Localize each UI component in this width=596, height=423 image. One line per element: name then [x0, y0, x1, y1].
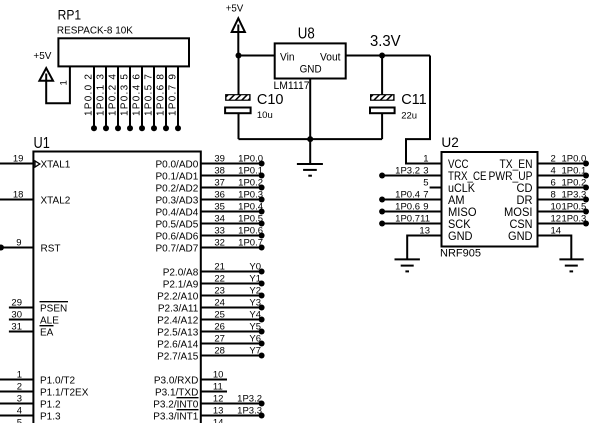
- svg-text:+5V: +5V: [33, 50, 51, 62]
- svg-text:1P0.3 5: 1P0.3 5: [119, 74, 130, 116]
- svg-text:1P0.4: 1P0.4: [238, 201, 263, 212]
- svg-text:1P0.6: 1P0.6: [238, 225, 263, 236]
- junction node GND rail: [307, 136, 313, 142]
- svg-text:P2.5/A13: P2.5/A13: [157, 327, 199, 338]
- U1 pin 12 P3.2/INT0 net 1P3.2: [153, 393, 264, 410]
- svg-text:30: 30: [11, 310, 22, 321]
- RP1 pin 3 net 1P0.1: [95, 66, 109, 131]
- svg-text:1P0.0: 1P0.0: [562, 153, 587, 164]
- svg-text:P2.4/A12: P2.4/A12: [157, 315, 199, 326]
- U1 pin 37 P0.2/AD2 net 1P0.2: [155, 177, 264, 194]
- svg-text:1P0.3: 1P0.3: [238, 189, 263, 200]
- U1 pin 33 P0.6/AD6 net 1P0.6: [155, 225, 264, 242]
- ground (U2 pin 14): [559, 259, 583, 271]
- svg-text:P0.1/AD1: P0.1/AD1: [155, 171, 198, 182]
- svg-text:4: 4: [17, 406, 22, 417]
- IC U2 NRF905: [440, 135, 538, 259]
- svg-text:14: 14: [213, 417, 224, 423]
- svg-text:P2.2/A10: P2.2/A10: [157, 291, 199, 302]
- svg-text:RST: RST: [41, 243, 61, 254]
- svg-text:1P0.0 2: 1P0.0 2: [83, 74, 94, 116]
- U2 pin names left column: [448, 159, 487, 243]
- svg-text:P0.0/AD0: P0.0/AD0: [155, 159, 198, 170]
- U1 pin 2 P1.1/T2EX: [0, 382, 89, 399]
- U2 pin 7 AM net 1P0.4: [379, 189, 441, 202]
- svg-text:23: 23: [214, 285, 225, 296]
- svg-text:Y2: Y2: [249, 285, 261, 296]
- capacitor C10 10u: [222, 56, 284, 140]
- svg-text:P2.6/A14: P2.6/A14: [157, 339, 199, 350]
- svg-text:6: 6: [551, 177, 556, 188]
- svg-text:1P0.7 9: 1P0.7 9: [167, 74, 178, 116]
- U2 pin 14 GND wire: [538, 225, 572, 259]
- svg-text:P3.1/TXD: P3.1/TXD: [155, 387, 198, 398]
- svg-text:28: 28: [214, 345, 225, 356]
- wire 3.3V to U2 VCC: [406, 56, 442, 164]
- svg-text:U8: U8: [298, 26, 315, 43]
- U1 pin 25 P2.4/A12 net Y4: [157, 309, 264, 326]
- U1 pin 1 P1.0/T2: [0, 370, 75, 387]
- svg-text:1P0.1: 1P0.1: [238, 165, 263, 176]
- svg-text:25: 25: [214, 309, 225, 320]
- svg-text:RP1: RP1: [58, 8, 82, 23]
- svg-text:1P0.2 4: 1P0.2 4: [107, 74, 118, 116]
- U1 pin 11 P3.1/TXD: [155, 381, 227, 398]
- svg-text:P3.0/RXD: P3.0/RXD: [154, 375, 198, 386]
- svg-text:+5V: +5V: [226, 2, 244, 14]
- svg-text:1P0.7: 1P0.7: [395, 213, 420, 224]
- svg-text:1P0.5: 1P0.5: [562, 201, 587, 212]
- svg-text:1P3.2: 1P3.2: [237, 393, 262, 404]
- svg-text:1P3.3: 1P3.3: [237, 405, 262, 416]
- RP1 pin 2 net 1P0.0: [83, 66, 97, 131]
- svg-text:1P0.5 7: 1P0.5 7: [143, 74, 154, 116]
- svg-text:DR: DR: [517, 195, 533, 207]
- svg-text:Y7: Y7: [249, 345, 261, 356]
- svg-text:P2.7/A15: P2.7/A15: [157, 351, 199, 362]
- svg-text:7: 7: [423, 189, 428, 200]
- U1 pin 39 P0.0/AD0 net 1P0.0: [155, 153, 264, 170]
- svg-text:P1.2: P1.2: [40, 399, 61, 410]
- U2 pin 11 SCK net 1P0.7: [379, 213, 441, 226]
- U1 pin 10 P3.0/RXD: [154, 369, 227, 386]
- U1 pin 38 P0.1/AD1 net 1P0.1: [155, 165, 264, 182]
- svg-text:MOSI: MOSI: [504, 207, 533, 219]
- U2 pin 4 PWR_UP net 1P0.1: [538, 165, 590, 178]
- svg-text:P2.3/A11: P2.3/A11: [158, 303, 199, 314]
- U1 pin 34 P0.5/AD5 net 1P0.5: [155, 213, 264, 230]
- svg-text:Y6: Y6: [249, 333, 261, 344]
- svg-text:33: 33: [214, 225, 225, 236]
- svg-text:SCK: SCK: [448, 219, 471, 231]
- svg-text:P2.0/A8: P2.0/A8: [163, 267, 199, 278]
- svg-text:P2.1/A9: P2.1/A9: [163, 279, 199, 290]
- svg-text:1P0.0: 1P0.0: [238, 153, 263, 164]
- svg-text:C10: C10: [257, 92, 284, 108]
- RP1 pin 5 net 1P0.3: [119, 66, 133, 131]
- svg-text:1: 1: [59, 80, 70, 85]
- U1 pin 19 XTAL1: [0, 154, 71, 171]
- svg-text:P1.3: P1.3: [40, 411, 61, 422]
- svg-text:8: 8: [551, 189, 556, 200]
- svg-text:18: 18: [13, 190, 24, 201]
- svg-text:9: 9: [16, 238, 21, 249]
- U1 pin 27 P2.6/A14 net Y6: [157, 333, 264, 350]
- svg-text:P0.5/AD5: P0.5/AD5: [155, 219, 198, 230]
- U2 pin 10 MOSI net 1P0.5: [538, 201, 590, 214]
- svg-text:P0.4/AD4: P0.4/AD4: [155, 207, 198, 218]
- svg-text:EA: EA: [40, 327, 54, 338]
- RP1 pin 8 net 1P0.6: [155, 66, 169, 131]
- svg-text:Vin: Vin: [280, 51, 295, 63]
- svg-text:35: 35: [214, 201, 225, 212]
- U1 pin 35 P0.4/AD4 net 1P0.4: [155, 201, 264, 218]
- svg-text:P0.2/AD2: P0.2/AD2: [155, 183, 198, 194]
- U2 pin 13 GND wire: [407, 225, 441, 259]
- svg-text:PSEN: PSEN: [40, 303, 67, 314]
- svg-text:Y3: Y3: [249, 297, 261, 308]
- svg-text:RESPACK-8 10K: RESPACK-8 10K: [57, 26, 133, 37]
- svg-text:1P3.3: 1P3.3: [562, 189, 587, 200]
- regulator U8 LM1117: [274, 26, 346, 93]
- svg-text:Vout: Vout: [320, 51, 341, 63]
- svg-text:3.3V: 3.3V: [370, 33, 401, 50]
- wire RP1 pin 1 to +5V: [46, 66, 70, 103]
- wire U8 Vout to 3.3V corner: [346, 55, 430, 57]
- ground (U2 pin 13): [395, 259, 420, 271]
- svg-text:11: 11: [420, 213, 430, 224]
- svg-text:10: 10: [551, 201, 562, 212]
- U2 pin names right column: [489, 159, 533, 243]
- svg-text:P3.2/INT0: P3.2/INT0: [153, 399, 198, 410]
- svg-text:14: 14: [551, 225, 562, 236]
- svg-text:NRF905: NRF905: [440, 248, 481, 260]
- svg-text:U2: U2: [441, 135, 458, 150]
- svg-text:P1.0/T2: P1.0/T2: [40, 375, 75, 386]
- svg-text:36: 36: [214, 189, 225, 200]
- svg-text:12: 12: [213, 393, 224, 404]
- svg-text:1P0.4: 1P0.4: [395, 189, 420, 200]
- svg-text:38: 38: [214, 165, 225, 176]
- svg-text:1P0.1: 1P0.1: [562, 165, 587, 176]
- svg-text:XTAL2: XTAL2: [41, 195, 71, 206]
- svg-text:CSN: CSN: [510, 219, 533, 231]
- svg-text:11: 11: [213, 381, 223, 392]
- svg-text:22: 22: [214, 273, 225, 284]
- svg-text:TRX_CE: TRX_CE: [448, 171, 487, 183]
- capacitor C11 22u: [367, 56, 427, 140]
- svg-text:5: 5: [17, 418, 22, 423]
- power +5V (RP1): [33, 50, 53, 82]
- svg-text:12: 12: [551, 213, 562, 224]
- RP1 pin 7 net 1P0.5: [143, 66, 157, 131]
- RP1 pin 6 net 1P0.4: [131, 66, 145, 131]
- U1 pin 22 P2.1/A9 net Y1: [163, 273, 265, 290]
- U1 pin 18 XTAL2: [0, 190, 71, 207]
- node 3.3V: [370, 33, 401, 59]
- U1 pin 29 PSEN: [9, 298, 68, 315]
- svg-text:3: 3: [423, 165, 428, 176]
- IC U1 (8051 MCU): [33, 135, 200, 423]
- svg-text:2: 2: [17, 382, 22, 393]
- svg-text:LM1117: LM1117: [274, 80, 310, 92]
- RP1 pin 9 net 1P0.7: [167, 66, 181, 131]
- svg-text:1: 1: [423, 153, 428, 164]
- U2 pin 9 MISO net 1P0.6: [379, 201, 441, 214]
- U1 pin 9 RST: [0, 238, 61, 255]
- svg-text:MISO: MISO: [448, 207, 477, 219]
- resistor pack RP1: [57, 8, 189, 67]
- RP1 pin 4 net 1P0.2: [107, 66, 121, 131]
- svg-text:34: 34: [214, 213, 225, 224]
- svg-text:26: 26: [214, 321, 225, 332]
- svg-text:29: 29: [11, 298, 22, 309]
- svg-text:19: 19: [13, 154, 24, 165]
- wire +5V to U8 Vin: [239, 55, 275, 57]
- svg-text:1P0.7: 1P0.7: [238, 237, 263, 248]
- svg-text:13: 13: [419, 225, 430, 236]
- U1 pin 4 P1.3: [0, 406, 61, 423]
- svg-text:AM: AM: [448, 195, 465, 207]
- U2 pin 5 uCLK stub: [423, 177, 441, 188]
- svg-text:1P3.2: 1P3.2: [395, 165, 420, 176]
- svg-text:Y5: Y5: [249, 321, 261, 332]
- svg-text:1P0.5: 1P0.5: [238, 213, 263, 224]
- svg-text:4: 4: [551, 165, 556, 176]
- svg-text:U1: U1: [34, 135, 50, 152]
- svg-text:C11: C11: [401, 92, 427, 108]
- svg-text:Y4: Y4: [249, 309, 261, 320]
- U1 pin 21 P2.0/A8 net Y0: [163, 261, 265, 278]
- svg-text:VCC: VCC: [448, 159, 469, 171]
- svg-text:22u: 22u: [401, 111, 417, 122]
- U1 pin 13 P3.3/INT1 net 1P3.3: [153, 405, 264, 422]
- svg-text:2: 2: [551, 153, 556, 164]
- svg-text:21: 21: [214, 261, 225, 272]
- svg-text:Y1: Y1: [249, 273, 261, 284]
- svg-text:39: 39: [214, 153, 225, 164]
- svg-text:uCLK: uCLK: [448, 183, 475, 195]
- svg-text:GND: GND: [508, 231, 533, 243]
- svg-text:1P0.3: 1P0.3: [562, 213, 587, 224]
- svg-text:24: 24: [214, 297, 225, 308]
- power +5V (regulator input): [226, 2, 245, 55]
- svg-text:10: 10: [213, 369, 224, 380]
- svg-text:P0.7/AD7: P0.7/AD7: [155, 243, 198, 254]
- wire U8 GND down: [309, 79, 311, 165]
- svg-text:GND: GND: [448, 231, 473, 243]
- ground rail under regulator: [239, 138, 383, 140]
- U1 pin 24 P2.3/A11 net Y3: [158, 297, 265, 314]
- U1 pin 26 P2.5/A13 net Y5: [157, 321, 264, 338]
- U1 pin 23 P2.2/A10 net Y2: [157, 285, 264, 302]
- svg-text:Y0: Y0: [249, 261, 261, 272]
- svg-text:P0.6/AD6: P0.6/AD6: [155, 231, 198, 242]
- svg-text:P3.3/INT1: P3.3/INT1: [153, 411, 198, 422]
- svg-text:9: 9: [423, 201, 428, 212]
- svg-text:1P0.6 8: 1P0.6 8: [155, 74, 166, 116]
- svg-text:1P0.2: 1P0.2: [238, 177, 263, 188]
- svg-text:37: 37: [214, 177, 225, 188]
- svg-text:31: 31: [11, 322, 22, 333]
- svg-text:CD: CD: [517, 183, 533, 195]
- U2 pin 6 CD net 1P0.2: [538, 177, 590, 190]
- U2 pin 3 TRX_CE net 1P3.2: [379, 165, 441, 178]
- svg-text:1P0.6: 1P0.6: [395, 201, 420, 212]
- svg-text:XTAL1: XTAL1: [41, 159, 71, 170]
- svg-text:5: 5: [423, 177, 428, 188]
- svg-text:TX_EN: TX_EN: [500, 159, 533, 171]
- U1 pin 36 P0.3/AD3 net 1P0.3: [155, 189, 264, 206]
- svg-text:1P0.2: 1P0.2: [562, 177, 587, 188]
- svg-text:13: 13: [213, 405, 224, 416]
- svg-text:P0.3/AD3: P0.3/AD3: [155, 195, 198, 206]
- svg-text:PWR_UP: PWR_UP: [489, 171, 533, 183]
- svg-text:3: 3: [17, 394, 22, 405]
- svg-text:1: 1: [17, 370, 22, 381]
- svg-text:1P0.4 6: 1P0.4 6: [131, 74, 142, 116]
- U2 pin 2 TX_EN net 1P0.0: [538, 153, 590, 166]
- svg-text:ALE: ALE: [40, 315, 59, 326]
- U1 pin 32 P0.7/AD7 net 1P0.7: [155, 237, 264, 254]
- U1 pin 28 P2.7/A15 net Y7: [157, 345, 264, 362]
- U2 pin 12 CSN net 1P0.3: [538, 213, 590, 226]
- svg-text:GND: GND: [300, 63, 322, 75]
- junction node +5V / C10: [236, 53, 242, 59]
- svg-text:P1.1/T2EX: P1.1/T2EX: [40, 387, 89, 398]
- U1 pin 31 EA: [9, 322, 54, 339]
- U2 pin 8 DR net 1P3.3: [538, 189, 590, 202]
- svg-text:32: 32: [214, 237, 225, 248]
- svg-text:1P0.1 3: 1P0.1 3: [95, 74, 106, 116]
- svg-text:10u: 10u: [257, 110, 273, 121]
- ground (U8): [297, 164, 323, 176]
- svg-text:27: 27: [214, 333, 225, 344]
- U1 pin 30 ALE: [9, 310, 59, 327]
- U1 pin 3 P1.2: [0, 394, 61, 411]
